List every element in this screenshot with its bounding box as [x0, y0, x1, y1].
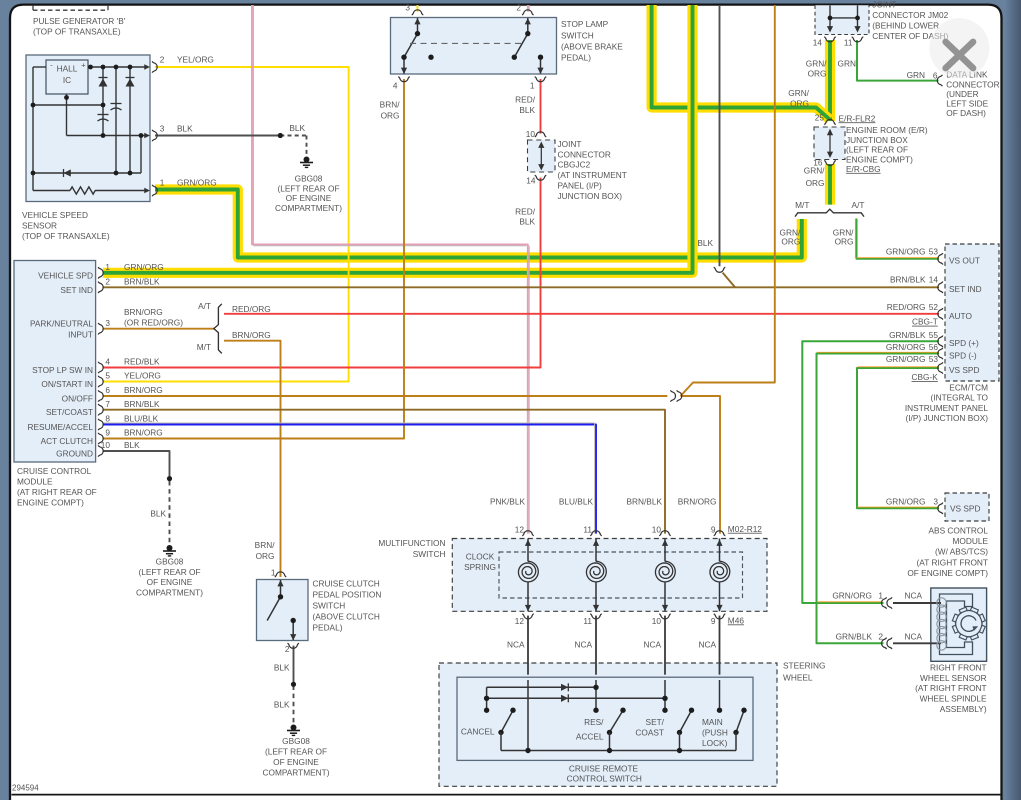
svg-text:+: +	[81, 61, 86, 70]
svg-text:14: 14	[526, 176, 536, 186]
svg-text:12: 12	[515, 616, 525, 626]
svg-text:(AT RIGHT FRONT: (AT RIGHT FRONT	[917, 557, 988, 567]
svg-text:NCA: NCA	[574, 640, 592, 650]
svg-text:OF ENGINE COMPT): OF ENGINE COMPT)	[907, 568, 988, 578]
svg-text:GRN/: GRN/	[804, 166, 825, 176]
svg-text:M/T: M/T	[795, 200, 809, 210]
svg-text:SENSOR: SENSOR	[22, 221, 57, 231]
svg-text:12: 12	[515, 525, 525, 535]
svg-text:53: 53	[929, 247, 939, 257]
svg-text:GROUND: GROUND	[56, 449, 93, 459]
svg-text:M/T: M/T	[197, 342, 211, 352]
svg-text:1: 1	[530, 81, 535, 91]
svg-text:PULSE GENERATOR 'B': PULSE GENERATOR 'B'	[33, 16, 126, 26]
svg-text:JOINT: JOINT	[872, 0, 896, 10]
svg-text:VEHICLE SPEED: VEHICLE SPEED	[22, 210, 88, 220]
svg-text:LOCK): LOCK)	[702, 738, 728, 748]
svg-text:11: 11	[583, 525, 592, 535]
svg-text:E/R-CBG: E/R-CBG	[846, 164, 881, 174]
svg-text:PEDAL): PEDAL)	[313, 623, 343, 633]
svg-text:OF ENGINE: OF ENGINE	[147, 577, 193, 587]
svg-text:CONNECTOR: CONNECTOR	[558, 149, 611, 159]
svg-text:BLU/BLK: BLU/BLK	[124, 414, 159, 424]
svg-text:SPD (+): SPD (+)	[949, 338, 979, 348]
svg-text:SET/: SET/	[646, 717, 665, 727]
svg-text:(BEHIND LOWER: (BEHIND LOWER	[872, 21, 939, 31]
svg-text:HALL: HALL	[57, 64, 78, 74]
svg-text:LEFT SIDE: LEFT SIDE	[946, 99, 988, 109]
svg-text:WHEEL SENSOR: WHEEL SENSOR	[920, 673, 987, 683]
svg-text:BLK: BLK	[289, 123, 305, 133]
svg-text:CRUISE CLUTCH: CRUISE CLUTCH	[313, 579, 380, 589]
svg-text:(LEFT REAR OF: (LEFT REAR OF	[265, 747, 327, 757]
svg-text:M02-R12: M02-R12	[728, 524, 763, 534]
svg-text:SET/COAST: SET/COAST	[46, 407, 93, 417]
svg-text:ON/OFF: ON/OFF	[62, 393, 93, 403]
svg-text:E/R-FLR2: E/R-FLR2	[839, 113, 876, 123]
svg-text:PNK/BLK: PNK/BLK	[490, 496, 526, 506]
svg-text:MODULE: MODULE	[953, 536, 989, 546]
svg-text:BRN/BLK: BRN/BLK	[890, 275, 926, 285]
svg-text:(AT RIGHT FRONT: (AT RIGHT FRONT	[915, 683, 986, 693]
svg-text:BRN/BLK: BRN/BLK	[124, 399, 160, 409]
svg-text:9: 9	[105, 428, 110, 438]
svg-text:5: 5	[105, 371, 110, 381]
svg-text:RESUME/ACCEL: RESUME/ACCEL	[28, 422, 94, 432]
svg-text:JOINT: JOINT	[558, 139, 582, 149]
svg-text:MODULE: MODULE	[17, 477, 53, 487]
svg-text:CBG-K: CBG-K	[912, 372, 939, 382]
svg-text:1: 1	[160, 178, 165, 188]
svg-text:ORG: ORG	[381, 111, 400, 121]
svg-text:NCA: NCA	[904, 631, 922, 641]
svg-text:VS OUT: VS OUT	[949, 256, 980, 266]
svg-text:55: 55	[929, 330, 939, 340]
svg-text:3: 3	[405, 3, 410, 13]
svg-text:ECM/TCM: ECM/TCM	[949, 382, 988, 392]
svg-text:AUTO: AUTO	[949, 311, 972, 321]
svg-text:(INTEGRAL TO: (INTEGRAL TO	[931, 393, 989, 403]
svg-text:CRUISE REMOTE: CRUISE REMOTE	[569, 763, 639, 773]
svg-text:CONNECTOR: CONNECTOR	[946, 79, 999, 89]
svg-text:ORG: ORG	[790, 98, 809, 108]
svg-text:GRN/ORG: GRN/ORG	[886, 342, 926, 352]
svg-text:GRN/: GRN/	[806, 58, 827, 68]
svg-text:SPRING: SPRING	[464, 562, 496, 572]
svg-text:BLK: BLK	[124, 440, 140, 450]
svg-text:ACT CLUTCH: ACT CLUTCH	[41, 436, 93, 446]
svg-text:NCA: NCA	[507, 640, 525, 650]
svg-text:BRN/: BRN/	[255, 540, 276, 550]
svg-text:10: 10	[652, 616, 662, 626]
svg-text:(LEFT REAR OF: (LEFT REAR OF	[138, 567, 200, 577]
svg-text:14: 14	[813, 38, 823, 48]
svg-text:BLK: BLK	[697, 238, 713, 248]
svg-text:BLK: BLK	[519, 105, 535, 115]
svg-text:8: 8	[105, 414, 110, 424]
svg-text:NCA: NCA	[643, 640, 661, 650]
svg-text:VS SPD: VS SPD	[949, 365, 979, 375]
svg-text:3: 3	[160, 124, 165, 134]
svg-text:NCA: NCA	[904, 590, 922, 600]
svg-text:PEDAL): PEDAL)	[561, 53, 591, 63]
svg-text:ORG: ORG	[835, 237, 854, 247]
svg-text:SWITCH: SWITCH	[413, 549, 446, 559]
svg-text:CLOCK: CLOCK	[466, 552, 495, 562]
svg-text:COMPARTMENT): COMPARTMENT)	[275, 203, 342, 213]
svg-text:BLK: BLK	[519, 217, 535, 227]
svg-text:10: 10	[101, 440, 111, 450]
svg-text:GRN: GRN	[838, 58, 856, 68]
svg-text:BRN/BLK: BRN/BLK	[626, 496, 662, 506]
svg-text:2: 2	[105, 277, 110, 287]
svg-text:BRN/ORG: BRN/ORG	[232, 330, 271, 340]
svg-text:ORG: ORG	[781, 237, 800, 247]
svg-text:RED/: RED/	[515, 95, 536, 105]
svg-text:MULTIFUNCTION: MULTIFUNCTION	[378, 538, 445, 548]
svg-text:RED/ORG: RED/ORG	[887, 302, 926, 312]
svg-text:OF ENGINE: OF ENGINE	[286, 193, 332, 203]
svg-text:2: 2	[516, 3, 521, 13]
svg-text:PEDAL POSITION: PEDAL POSITION	[313, 590, 382, 600]
svg-text:1: 1	[271, 568, 276, 578]
svg-text:(ABOVE BRAKE: (ABOVE BRAKE	[561, 42, 623, 52]
svg-text:14: 14	[929, 275, 939, 285]
svg-text:GBG08: GBG08	[282, 736, 310, 746]
svg-text:GRN/ORG: GRN/ORG	[886, 354, 926, 364]
svg-text:BRN/BLK: BRN/BLK	[124, 277, 160, 287]
svg-text:IC: IC	[63, 75, 71, 85]
svg-text:GRN/ORG: GRN/ORG	[832, 590, 872, 600]
svg-text:VS SPD: VS SPD	[950, 504, 980, 514]
svg-text:BLK: BLK	[274, 662, 290, 672]
svg-text:GRN/ORG: GRN/ORG	[886, 496, 926, 506]
svg-text:10: 10	[652, 525, 662, 535]
svg-text:SPD (-): SPD (-)	[949, 350, 977, 360]
svg-text:RES/: RES/	[584, 717, 604, 727]
svg-text:GRN/ORG: GRN/ORG	[886, 247, 926, 257]
svg-text:WHEEL SPINDLE: WHEEL SPINDLE	[920, 694, 987, 704]
svg-text:52: 52	[929, 302, 939, 312]
svg-text:BRN/ORG: BRN/ORG	[124, 428, 163, 438]
svg-text:CBG-T: CBG-T	[912, 317, 938, 327]
svg-text:JUNCTION BOX: JUNCTION BOX	[846, 135, 908, 145]
svg-text:GRN/: GRN/	[788, 88, 809, 98]
svg-text:CRUISE CONTROL: CRUISE CONTROL	[17, 466, 92, 476]
svg-text:ABS CONTROL: ABS CONTROL	[929, 526, 989, 536]
svg-text:1: 1	[878, 590, 883, 600]
svg-text:GRN: GRN	[907, 70, 925, 80]
svg-text:BLK: BLK	[177, 124, 193, 134]
svg-text:ACCEL: ACCEL	[576, 732, 604, 742]
svg-text:(AT RIGHT REAR OF: (AT RIGHT REAR OF	[17, 487, 97, 497]
svg-text:2: 2	[878, 631, 883, 641]
svg-text:11: 11	[583, 616, 592, 626]
svg-text:SET IND: SET IND	[949, 284, 982, 294]
svg-text:M46: M46	[728, 615, 745, 625]
svg-text:MAIN: MAIN	[702, 717, 723, 727]
svg-text:ASSEMBLY): ASSEMBLY)	[940, 704, 987, 714]
svg-text:2: 2	[160, 55, 165, 65]
svg-text:CANCEL: CANCEL	[461, 727, 495, 737]
svg-text:10: 10	[526, 129, 536, 139]
svg-text:(OR RED/ORG): (OR RED/ORG)	[124, 317, 183, 327]
svg-text:STOP LAMP: STOP LAMP	[561, 19, 609, 29]
svg-text:YEL/ORG: YEL/ORG	[177, 55, 214, 65]
svg-text:ENGINE COMPT): ENGINE COMPT)	[17, 497, 84, 507]
svg-text:SWITCH: SWITCH	[561, 30, 594, 40]
svg-text:ORG: ORG	[808, 68, 827, 78]
svg-text:COMPARTMENT): COMPARTMENT)	[136, 588, 203, 598]
svg-text:GBG08: GBG08	[156, 556, 184, 566]
svg-text:7: 7	[105, 399, 110, 409]
svg-text:INPUT: INPUT	[68, 330, 93, 340]
svg-text:(UNDER: (UNDER	[946, 89, 978, 99]
svg-text:RED/: RED/	[515, 207, 536, 217]
svg-text:RED/BLK: RED/BLK	[124, 357, 160, 367]
svg-text:6: 6	[933, 70, 938, 80]
svg-text:294594: 294594	[12, 783, 39, 792]
svg-text:GRN/ORG: GRN/ORG	[177, 178, 217, 188]
svg-text:3: 3	[105, 318, 110, 328]
svg-text:SET IND: SET IND	[60, 285, 93, 295]
svg-text:ORG: ORG	[256, 551, 275, 561]
svg-text:BLU/BLK: BLU/BLK	[559, 496, 594, 506]
svg-text:SWITCH: SWITCH	[313, 601, 346, 611]
svg-text:JUNCTION BOX): JUNCTION BOX)	[558, 191, 623, 201]
svg-text:(TOP OF TRANSAXLE): (TOP OF TRANSAXLE)	[33, 27, 121, 37]
svg-text:BRN/: BRN/	[380, 100, 401, 110]
svg-text:WHEEL: WHEEL	[783, 673, 813, 683]
svg-text:STEERING: STEERING	[783, 661, 825, 671]
svg-text:PANEL (I/P): PANEL (I/P)	[558, 181, 602, 191]
svg-text:9: 9	[711, 525, 716, 535]
svg-text:9: 9	[711, 616, 716, 626]
svg-text:STOP LP SW IN: STOP LP SW IN	[32, 365, 93, 375]
svg-text:3: 3	[933, 496, 938, 506]
svg-text:CONTROL SWITCH: CONTROL SWITCH	[567, 773, 642, 783]
svg-text:NCA: NCA	[698, 640, 716, 650]
svg-text:(I/P) JUNCTION BOX): (I/P) JUNCTION BOX)	[905, 413, 988, 423]
svg-text:25: 25	[815, 113, 825, 123]
svg-text:A/T: A/T	[852, 200, 865, 210]
svg-text:(PUSH: (PUSH	[702, 728, 728, 738]
svg-text:ORG: ORG	[806, 178, 825, 188]
svg-text:BRN/ORG: BRN/ORG	[124, 385, 163, 395]
svg-text:RIGHT FRONT: RIGHT FRONT	[930, 662, 987, 672]
svg-text:GBG08: GBG08	[295, 173, 323, 183]
svg-text:RED/ORG: RED/ORG	[232, 304, 271, 314]
svg-text:ON/START IN: ON/START IN	[41, 379, 93, 389]
svg-text:BRN/ORG: BRN/ORG	[678, 496, 717, 506]
svg-text:COMPARTMENT): COMPARTMENT)	[263, 767, 330, 777]
svg-text:4: 4	[393, 81, 398, 91]
svg-text:(LEFT REAR OF: (LEFT REAR OF	[277, 183, 339, 193]
svg-text:YEL/ORG: YEL/ORG	[124, 371, 161, 381]
svg-text:CBGJC2: CBGJC2	[558, 160, 591, 170]
svg-text:OF ENGINE: OF ENGINE	[273, 757, 319, 767]
svg-text:56: 56	[929, 342, 939, 352]
svg-text:VEHICLE SPD: VEHICLE SPD	[38, 270, 93, 280]
svg-text:COAST: COAST	[635, 728, 664, 738]
svg-text:6: 6	[105, 385, 110, 395]
svg-text:4: 4	[105, 357, 110, 367]
svg-text:GRN/ORG: GRN/ORG	[124, 262, 164, 272]
svg-text:INSTRUMENT PANEL: INSTRUMENT PANEL	[905, 403, 989, 413]
svg-text:A/T: A/T	[198, 301, 211, 311]
svg-text:GRN/BLK: GRN/BLK	[836, 631, 873, 641]
svg-text:BLK: BLK	[274, 700, 290, 710]
svg-text:1: 1	[105, 262, 110, 272]
svg-text:2: 2	[285, 644, 290, 654]
svg-text:ENGINE ROOM (E/R): ENGINE ROOM (E/R)	[846, 125, 928, 135]
svg-text:(TOP OF TRANSAXLE): (TOP OF TRANSAXLE)	[22, 231, 110, 241]
svg-text:(W/ ABS/TCS): (W/ ABS/TCS)	[935, 547, 988, 557]
svg-text:(LEFT REAR OF: (LEFT REAR OF	[846, 145, 908, 155]
svg-text:11: 11	[844, 38, 853, 48]
svg-text:(AT INSTRUMENT: (AT INSTRUMENT	[558, 170, 627, 180]
svg-text:OF DASH): OF DASH)	[946, 108, 986, 118]
svg-text:GRN/BLK: GRN/BLK	[889, 330, 926, 340]
svg-text:(ABOVE CLUTCH: (ABOVE CLUTCH	[313, 612, 380, 622]
svg-text:53: 53	[929, 354, 939, 364]
svg-text:CONNECTOR JM02: CONNECTOR JM02	[872, 10, 948, 20]
svg-text:BLK: BLK	[150, 509, 166, 519]
svg-text:BRN/ORG: BRN/ORG	[124, 307, 163, 317]
svg-text:PARK/NEUTRAL: PARK/NEUTRAL	[30, 319, 93, 329]
